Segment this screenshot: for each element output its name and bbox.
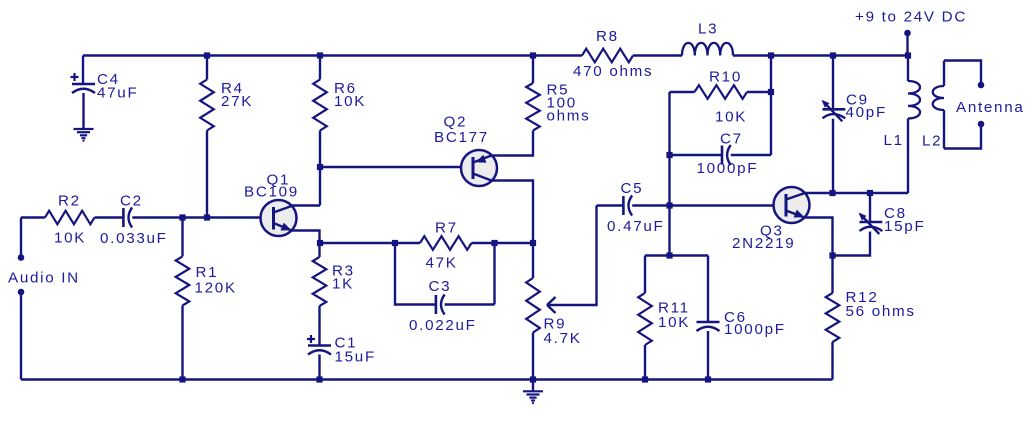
resistor R8 bbox=[573, 28, 653, 80]
ground below R9 bbox=[523, 380, 543, 405]
junction C1 / ground rail bbox=[316, 376, 322, 382]
resistor R9 bbox=[526, 243, 581, 380]
junction R5 / supply rail bbox=[530, 52, 536, 58]
ground below C4 bbox=[74, 129, 94, 142]
junction R6 / Q2 base line bbox=[317, 164, 323, 170]
svg-text:L2: L2 bbox=[922, 133, 942, 150]
svg-text:L3: L3 bbox=[698, 21, 718, 38]
svg-text:C2: C2 bbox=[120, 193, 143, 210]
wire Q1 emitter bbox=[291, 231, 319, 244]
junction R7-C3 left node bbox=[392, 240, 398, 246]
junction Q1 emitter / R3 bbox=[317, 240, 323, 246]
svg-text:27K: 27K bbox=[221, 93, 253, 110]
capacitor C8 bbox=[833, 193, 926, 256]
svg-text:R8: R8 bbox=[596, 28, 619, 45]
wire R10/C7 left column bbox=[668, 92, 670, 256]
wiper arrow of R9 bbox=[547, 206, 597, 314]
svg-text:BC177: BC177 bbox=[434, 129, 489, 146]
svg-text:Antenna: Antenna bbox=[956, 99, 1024, 116]
svg-text:47uF: 47uF bbox=[97, 85, 138, 102]
svg-text:C5: C5 bbox=[621, 180, 644, 197]
inductor L1 bbox=[884, 56, 921, 194]
wire Q3 base bbox=[670, 204, 774, 206]
wire Q2 collector bbox=[491, 181, 533, 244]
junction C6 / ground rail bbox=[705, 376, 711, 382]
junction Q3 emitter / R12 / C8 bbox=[829, 252, 835, 258]
junction Q3 collector / C9 bbox=[829, 190, 835, 196]
svg-text:0.033uF: 0.033uF bbox=[100, 230, 168, 247]
svg-text:+9 to 24V DC: +9 to 24V DC bbox=[855, 9, 967, 26]
node Antenna terminals bbox=[944, 61, 1024, 149]
junction C9 / supply rail bbox=[830, 52, 836, 58]
capacitor C4 bbox=[71, 56, 139, 130]
svg-text:ohms: ohms bbox=[547, 108, 591, 125]
resistor R3 bbox=[313, 243, 355, 306]
svg-text:10K: 10K bbox=[334, 93, 366, 110]
svg-text:10K: 10K bbox=[54, 230, 86, 247]
junction C8 / collector line bbox=[867, 190, 873, 196]
resistor R11 bbox=[638, 256, 690, 380]
transistor Q2 bbox=[434, 114, 497, 187]
junction R10 / right column bbox=[768, 89, 774, 95]
svg-text:0.022uF: 0.022uF bbox=[409, 317, 477, 334]
junction L1 / supply terminal bbox=[905, 52, 911, 58]
junction C7 / R10 left column bbox=[666, 152, 672, 158]
svg-text:R7: R7 bbox=[435, 220, 458, 237]
junction R4 / Q1 base line bbox=[204, 214, 210, 220]
svg-text:40pF: 40pF bbox=[846, 104, 887, 121]
svg-text:R2: R2 bbox=[58, 193, 81, 210]
wire R10/C7 right column bbox=[770, 56, 772, 156]
svg-text:R10: R10 bbox=[709, 69, 742, 86]
svg-text:47K: 47K bbox=[426, 255, 458, 272]
capacitor C7 bbox=[670, 131, 772, 178]
svg-text:470 ohms: 470 ohms bbox=[573, 63, 653, 80]
transistor Q1 bbox=[244, 172, 299, 237]
svg-text:56 ohms: 56 ohms bbox=[846, 303, 916, 320]
svg-text:4.7K: 4.7K bbox=[544, 330, 582, 347]
svg-text:BC109: BC109 bbox=[244, 184, 299, 201]
wire Q3 emitter bbox=[805, 218, 833, 256]
transistor Q3 bbox=[732, 187, 810, 252]
resistor R10 bbox=[670, 69, 772, 126]
svg-text:2N2219: 2N2219 bbox=[732, 235, 795, 252]
junction R7-C3 right node bbox=[491, 240, 497, 246]
resistor R7 bbox=[420, 220, 472, 272]
resistor R5 bbox=[526, 56, 590, 131]
svg-text:15pF: 15pF bbox=[884, 218, 925, 235]
svg-text:0.47uF: 0.47uF bbox=[607, 218, 664, 235]
node +9 to 24V DC bbox=[855, 9, 967, 56]
svg-text:15uF: 15uF bbox=[335, 349, 376, 366]
svg-text:C7: C7 bbox=[720, 131, 743, 148]
capacitor C9 bbox=[822, 56, 887, 194]
junction R10-C7 column / supply rail bbox=[768, 52, 774, 58]
junction Q2 collector / R9 bbox=[530, 240, 536, 246]
junction R6 / supply rail bbox=[317, 52, 323, 58]
junction R9 / ground rail bbox=[530, 376, 536, 382]
svg-text:1K: 1K bbox=[332, 276, 354, 293]
svg-text:1000pF: 1000pF bbox=[724, 321, 786, 338]
svg-text:L1: L1 bbox=[884, 132, 904, 149]
capacitor C6 bbox=[697, 256, 786, 380]
junction R1 / ground rail bbox=[179, 376, 185, 382]
capacitor C5 bbox=[597, 180, 670, 235]
wire top supply rail bbox=[83, 54, 908, 56]
capacitor C3 bbox=[395, 243, 495, 334]
junction C5 / Q3 base bbox=[666, 202, 672, 208]
resistor R4 bbox=[200, 56, 253, 218]
wire Q1 collector bbox=[292, 204, 321, 206]
resistor R12 bbox=[826, 256, 916, 380]
svg-text:1000pF: 1000pF bbox=[697, 160, 759, 177]
wire Q2 base bbox=[320, 166, 461, 168]
svg-text:R1: R1 bbox=[196, 264, 219, 281]
svg-text:Audio IN: Audio IN bbox=[8, 270, 80, 287]
resistor R6 bbox=[313, 56, 366, 206]
junction R11-C6 node bbox=[666, 252, 672, 258]
inductor L3 bbox=[682, 21, 733, 56]
resistor R1 bbox=[176, 218, 237, 380]
svg-text:C3: C3 bbox=[429, 278, 452, 295]
wire input line bbox=[21, 216, 261, 218]
capacitor C1 bbox=[307, 306, 376, 380]
wire R5 to Q2 emitter bbox=[491, 131, 533, 156]
junction R11 / ground rail bbox=[642, 376, 648, 382]
svg-text:120K: 120K bbox=[195, 280, 237, 297]
svg-text:Q2: Q2 bbox=[444, 114, 468, 131]
node Audio IN terminals bbox=[8, 218, 80, 380]
wire feedback node line bbox=[320, 242, 533, 244]
inductor L2 bbox=[922, 61, 944, 150]
resistor R2 bbox=[45, 193, 95, 247]
junction R4 / supply rail bbox=[204, 52, 210, 58]
junction R1 / input line bbox=[179, 214, 185, 220]
svg-text:10K: 10K bbox=[658, 314, 690, 331]
wire bottom ground rail bbox=[21, 378, 833, 380]
wire Q3 collector bbox=[805, 192, 908, 194]
wire R11-C6 top link bbox=[645, 254, 708, 256]
svg-text:10K: 10K bbox=[715, 109, 747, 126]
capacitor C2 bbox=[100, 193, 168, 248]
